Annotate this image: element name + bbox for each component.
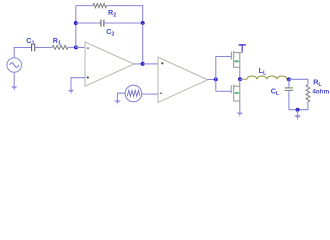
op-amp U2 minus mark xyxy=(160,92,162,94)
capacitor C2 xyxy=(100,20,102,27)
wire CL bottom lead xyxy=(288,90,290,109)
capacitor C1 xyxy=(31,44,33,52)
wire node G to RL xyxy=(289,79,308,84)
wire output node to M2 drain xyxy=(239,79,241,86)
wire to M2 gate xyxy=(216,90,231,92)
wire M2 source to ground xyxy=(239,101,241,113)
resistor R1 xyxy=(52,46,68,50)
wire feedback left vertical xyxy=(75,6,77,48)
wire R2 branch left xyxy=(76,5,93,7)
op-amp U1 triangle xyxy=(85,42,134,86)
ground under U1 plus input xyxy=(68,90,75,93)
wire C1 to R1 xyxy=(35,47,52,49)
inductor LL xyxy=(247,76,287,79)
op-amp U2 plus mark xyxy=(161,62,163,64)
wire U2 output xyxy=(208,79,216,81)
AC source V1 circle xyxy=(7,58,22,73)
capacitor CL xyxy=(285,87,294,89)
wire LL to node G xyxy=(287,78,289,80)
triangle wave source VT waveform xyxy=(127,90,140,96)
resistor R2 xyxy=(93,4,107,8)
node E junction dot (gate feed) xyxy=(214,77,218,81)
wire gate feed vertical xyxy=(215,57,217,92)
transistor M1 bulk arrow xyxy=(236,60,240,62)
wire node A to op-amp U1 inverting input xyxy=(76,47,85,49)
transistor M2 (lower NMOS) xyxy=(231,85,240,102)
svg-text:4ohm: 4ohm xyxy=(312,89,329,96)
ground under V1 xyxy=(11,86,18,89)
node C junction dot (C2 right) xyxy=(141,21,145,25)
node F junction dot (half-bridge output) xyxy=(238,77,242,81)
wire V1 bottom lead xyxy=(13,73,15,87)
wire U1 output to U2 input xyxy=(143,63,158,65)
wire VT to ground xyxy=(117,93,125,100)
op-amp U1 plus mark xyxy=(87,76,89,78)
power VDD symbol xyxy=(241,45,243,52)
triangle wave source VT circle xyxy=(125,85,142,102)
wire R2 branch right xyxy=(107,6,143,23)
wire C2 branch right xyxy=(104,22,143,24)
ground under M2 xyxy=(237,113,244,116)
wire to M1 gate xyxy=(216,56,232,58)
wire node H to ground xyxy=(297,110,299,116)
resistor RL xyxy=(306,85,310,102)
node G junction dot (filter node) xyxy=(287,77,291,81)
wire U1 output xyxy=(134,63,143,65)
wire feedback right vertical xyxy=(142,23,144,64)
node B junction dot (C2 left) xyxy=(74,21,78,25)
node D junction dot (U1 output) xyxy=(141,62,145,66)
op-amp U1 minus mark xyxy=(87,47,89,49)
wire C2 branch left xyxy=(76,22,101,24)
wire R1 to node A xyxy=(68,46,76,48)
capacitor CL top lead xyxy=(288,79,290,88)
wire RL bottom xyxy=(289,102,308,110)
node A junction dot xyxy=(74,45,78,49)
wire V1 top lead xyxy=(14,48,31,58)
wire VT to U2 inverting input xyxy=(142,93,158,95)
transistor M1 (upper NMOS) xyxy=(231,51,242,68)
wire U1 noninverting input to ground xyxy=(71,78,85,90)
AC source V1 sine wave xyxy=(10,63,19,68)
wire output node to LL xyxy=(240,78,244,80)
ground left of VT xyxy=(114,100,121,103)
op-amp U2 triangle xyxy=(158,57,208,102)
wire M1 source to output node xyxy=(239,67,241,79)
transistor M2 bulk arrow xyxy=(236,92,240,94)
ground under load xyxy=(294,115,301,118)
node H junction dot (load ground node) xyxy=(296,108,300,112)
